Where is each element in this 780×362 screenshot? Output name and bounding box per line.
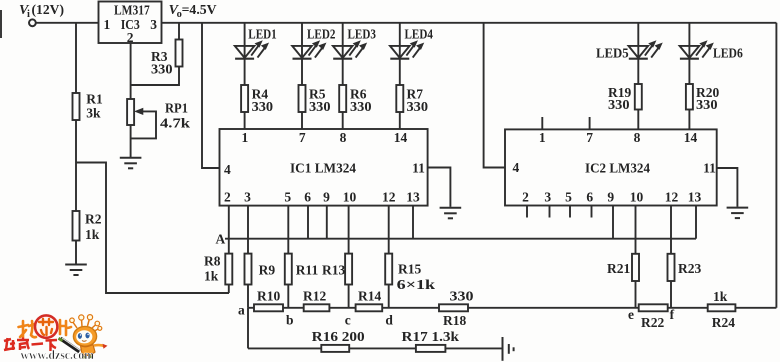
wire R15 bottom to node d bbox=[388, 285, 390, 308]
svg-text:14: 14 bbox=[394, 130, 408, 145]
ground under RP1 bbox=[120, 157, 142, 169]
watermark magnifier ring bbox=[35, 315, 57, 337]
resistor R14 bbox=[356, 304, 383, 311]
wire R1R2 junction to divider tap bbox=[76, 163, 229, 294]
svg-text:8: 8 bbox=[634, 130, 641, 145]
svg-text:LED2: LED2 bbox=[307, 27, 336, 42]
watermark xin char bbox=[39, 319, 53, 335]
svg-text:13: 13 bbox=[406, 190, 420, 205]
svg-text:330: 330 bbox=[608, 97, 630, 112]
wire R3 branch from rail bbox=[178, 23, 180, 40]
svg-text:10: 10 bbox=[343, 190, 357, 205]
svg-text:R12: R12 bbox=[303, 288, 326, 303]
svg-text:330: 330 bbox=[696, 97, 718, 112]
watermark mascot eyes bbox=[78, 333, 82, 339]
resistor R8 bbox=[225, 254, 232, 285]
wire IC2 stub pin1 bbox=[541, 117, 543, 129]
svg-text:c: c bbox=[345, 313, 351, 328]
watermark mascot head bbox=[73, 326, 96, 346]
wire IC1 pin2 to R8 bbox=[228, 206, 230, 254]
resistor R13 bbox=[345, 254, 352, 285]
LED4 bbox=[390, 41, 424, 59]
wire IC1 pin9 to A bbox=[326, 206, 328, 239]
wire IC2 stub pin5 bbox=[569, 206, 571, 218]
svg-text:3: 3 bbox=[244, 190, 251, 205]
resistor R24 bbox=[708, 304, 736, 311]
resistor R5 bbox=[299, 85, 306, 112]
svg-text:=4.5V: =4.5V bbox=[182, 2, 217, 17]
wire RP1 bottom to ground bbox=[130, 125, 132, 158]
svg-text:f: f bbox=[670, 307, 675, 322]
wire LED2 column bbox=[301, 23, 303, 129]
svg-text:330: 330 bbox=[151, 62, 173, 77]
wire R9 bottom to node a bbox=[247, 285, 249, 308]
wire IC1 pin13 to A bbox=[412, 206, 414, 239]
resistor R2 bbox=[73, 211, 80, 241]
svg-text:R18: R18 bbox=[443, 313, 466, 328]
svg-text:11: 11 bbox=[703, 160, 716, 175]
svg-text:4.7k: 4.7k bbox=[160, 116, 191, 131]
watermark mascot crown bbox=[73, 319, 100, 332]
resistor R17 bbox=[416, 345, 446, 352]
ground IC1 pin11 bbox=[440, 207, 462, 219]
wire node a down to wire2 bbox=[247, 308, 249, 349]
wire right vertical rail bbox=[775, 23, 777, 308]
wire bottom resistor chain bbox=[248, 307, 776, 309]
svg-text:RP1: RP1 bbox=[165, 101, 188, 116]
svg-text:R14: R14 bbox=[358, 288, 381, 303]
resistor R4 bbox=[241, 85, 248, 112]
svg-text:R11: R11 bbox=[296, 263, 319, 278]
svg-text:2: 2 bbox=[224, 190, 231, 205]
svg-text:3: 3 bbox=[544, 190, 551, 205]
svg-text:2: 2 bbox=[127, 30, 134, 45]
ground IC2 pin11 bbox=[727, 207, 749, 219]
svg-text:d: d bbox=[385, 313, 393, 328]
svg-text:R23: R23 bbox=[678, 261, 701, 276]
watermark mascot legs bbox=[84, 356, 92, 359]
svg-text:R22: R22 bbox=[641, 315, 664, 330]
wire node A rail bbox=[225, 238, 696, 240]
svg-text:LED3: LED3 bbox=[348, 27, 377, 42]
input terminal circle Vi bbox=[29, 19, 36, 26]
resistor R19 bbox=[635, 84, 642, 110]
svg-text:13: 13 bbox=[688, 190, 702, 205]
svg-text:R17 1.3k: R17 1.3k bbox=[402, 329, 460, 344]
resistor R18 bbox=[439, 304, 468, 311]
op-amp U IC1 LM324 box bbox=[220, 129, 428, 206]
svg-text:14: 14 bbox=[684, 130, 698, 145]
svg-text:LED6: LED6 bbox=[713, 46, 743, 61]
LED1 bbox=[235, 41, 269, 59]
wire R1 column bbox=[75, 23, 77, 211]
wire IC2 stub pin2 bbox=[526, 206, 528, 218]
svg-text:(12V): (12V) bbox=[32, 2, 65, 17]
svg-text:R16 200: R16 200 bbox=[312, 329, 365, 344]
wire LM317 pin2 column bbox=[130, 43, 132, 99]
wire R23 bottom to node f bbox=[670, 281, 672, 308]
wire IC2 stub pin3 bbox=[549, 206, 551, 218]
watermark mascot face bbox=[76, 330, 92, 343]
svg-text:12: 12 bbox=[665, 190, 679, 205]
resistor R20 bbox=[686, 84, 693, 110]
svg-text:5: 5 bbox=[565, 190, 572, 205]
wire LED6 column bbox=[688, 23, 690, 130]
potentiometer RP1 body bbox=[127, 99, 134, 125]
resistor R15 bbox=[385, 254, 392, 285]
svg-text:R9: R9 bbox=[259, 263, 276, 278]
svg-text:330: 330 bbox=[309, 99, 331, 114]
op-amp U IC2 LM324 box bbox=[505, 129, 717, 205]
svg-text:R1: R1 bbox=[86, 92, 103, 107]
svg-text:330: 330 bbox=[252, 99, 274, 114]
svg-text:R8: R8 bbox=[204, 254, 221, 269]
svg-text:LM317: LM317 bbox=[114, 3, 150, 18]
svg-text:5: 5 bbox=[284, 190, 291, 205]
svg-text:1: 1 bbox=[242, 130, 249, 145]
svg-text:1: 1 bbox=[539, 130, 546, 145]
wire top rail Vo bbox=[162, 22, 777, 24]
LED2 bbox=[292, 41, 326, 59]
svg-text:8: 8 bbox=[340, 130, 347, 145]
wire IC1 pin12 to R15 bbox=[388, 206, 390, 254]
svg-text:www.dzsc.com: www.dzsc.com bbox=[21, 348, 95, 362]
svg-text:4: 4 bbox=[513, 160, 520, 175]
resistor R22 bbox=[639, 304, 668, 311]
svg-text:6: 6 bbox=[304, 190, 311, 205]
resistor R10 bbox=[254, 304, 283, 311]
potentiometer RP1 wiper arrow bbox=[135, 108, 143, 114]
svg-text:i: i bbox=[27, 9, 30, 20]
svg-text:1k: 1k bbox=[204, 269, 219, 284]
resistor R23 bbox=[668, 254, 675, 281]
wire IC2 pin10 to R21 bbox=[635, 206, 637, 254]
svg-text:R2: R2 bbox=[85, 212, 102, 227]
svg-text:10: 10 bbox=[630, 190, 644, 205]
resistor R1 bbox=[73, 93, 80, 120]
wire IC2 pin11 to ground bbox=[717, 168, 738, 207]
wire input to LM317 pin1 bbox=[36, 22, 99, 24]
ground sideways at end of R17 wire bbox=[503, 337, 514, 361]
svg-text:LED1: LED1 bbox=[248, 27, 277, 42]
resistor R3 bbox=[176, 40, 183, 67]
resistor R6 bbox=[339, 85, 346, 112]
wire R13 bottom to node c bbox=[348, 285, 350, 308]
svg-text:b: b bbox=[286, 313, 294, 328]
svg-text:R10: R10 bbox=[257, 288, 280, 303]
svg-text:12: 12 bbox=[382, 190, 396, 205]
svg-text:3: 3 bbox=[150, 17, 157, 32]
wire RP1 wiper return bbox=[131, 111, 156, 138]
wire IC2 stub pin6 bbox=[591, 206, 593, 218]
svg-text:6: 6 bbox=[586, 190, 593, 205]
svg-text:6×1k: 6×1k bbox=[397, 277, 436, 292]
svg-text:7: 7 bbox=[299, 130, 306, 145]
svg-text:A: A bbox=[216, 232, 226, 247]
ground under R2 bbox=[65, 264, 87, 276]
wire R2 to ground bbox=[75, 241, 77, 265]
wire R21 bottom to node e bbox=[635, 281, 637, 308]
svg-text:330: 330 bbox=[407, 99, 429, 114]
wire IC2 pin13 to A bbox=[695, 206, 697, 239]
watermark zhao char orange bbox=[19, 321, 37, 337]
wire IC2 pin9 to A bbox=[612, 206, 614, 239]
wire IC1 pin11 to ground bbox=[428, 168, 451, 207]
LED5 bbox=[629, 41, 663, 59]
watermark mascot arm bbox=[94, 344, 104, 347]
watermark mascot pen bbox=[61, 339, 80, 352]
watermark pian char orange bbox=[60, 320, 71, 335]
svg-text:LED5: LED5 bbox=[596, 46, 629, 61]
svg-text:330: 330 bbox=[450, 288, 474, 303]
wire LED5 column bbox=[637, 23, 639, 130]
resistor R11 bbox=[285, 254, 292, 285]
watermark weiku chars red bbox=[4, 338, 57, 352]
svg-text:9: 9 bbox=[607, 190, 614, 205]
svg-text:a: a bbox=[238, 303, 245, 318]
wire2 R16 R17 branch bbox=[248, 347, 503, 349]
svg-text:e: e bbox=[628, 307, 634, 322]
resistor R9 bbox=[245, 254, 252, 285]
wire LED1 column bbox=[244, 23, 246, 129]
svg-text:IC2 LM324: IC2 LM324 bbox=[585, 160, 650, 175]
svg-text:4: 4 bbox=[224, 162, 231, 177]
wire LED3 column bbox=[342, 23, 344, 129]
svg-text:9: 9 bbox=[323, 190, 330, 205]
svg-text:330: 330 bbox=[350, 99, 372, 114]
wire IC1 pin6 to A bbox=[307, 206, 309, 239]
wire LED4 column bbox=[399, 23, 401, 129]
wire R3 bottom to pin2 column bbox=[131, 67, 179, 86]
wire rail to IC1 pin4 bbox=[202, 23, 220, 168]
svg-text:7: 7 bbox=[586, 130, 593, 145]
svg-text:R13: R13 bbox=[322, 263, 345, 278]
resistor R7 bbox=[396, 85, 403, 112]
svg-text:R15: R15 bbox=[398, 262, 421, 277]
wire R8 bottom bbox=[228, 285, 230, 294]
wire IC1 pin5 to R11 bbox=[287, 206, 289, 254]
svg-text:3k: 3k bbox=[86, 106, 101, 121]
wire IC1 pin10 to R13 bbox=[348, 206, 350, 254]
svg-text:2: 2 bbox=[522, 190, 529, 205]
svg-text:R24: R24 bbox=[712, 315, 735, 330]
svg-text:1k: 1k bbox=[85, 227, 100, 242]
wire IC2 stub pin7 bbox=[589, 117, 591, 129]
svg-text:IC1 LM324: IC1 LM324 bbox=[290, 160, 356, 175]
svg-text:LED4: LED4 bbox=[405, 27, 434, 42]
svg-text:1: 1 bbox=[104, 17, 111, 32]
scan artifact left edge bbox=[0, 10, 2, 38]
wire IC1 pin3 to R9 bbox=[247, 206, 249, 254]
wire rail to IC2 pin4 bbox=[484, 23, 505, 168]
svg-text:1k: 1k bbox=[713, 289, 728, 304]
wire R11 bottom to node b bbox=[287, 285, 289, 308]
LED3 bbox=[333, 41, 367, 59]
svg-text:R21: R21 bbox=[607, 261, 630, 276]
LED6 bbox=[680, 41, 714, 59]
resistor R16 bbox=[321, 345, 349, 352]
resistor R21 bbox=[632, 254, 639, 281]
wire IC2 pin12 to R23 bbox=[670, 206, 672, 254]
svg-text:11: 11 bbox=[412, 160, 425, 175]
regulator U IC3 LM317 box bbox=[99, 2, 162, 44]
resistor R12 bbox=[304, 304, 330, 311]
watermark mascot body bbox=[81, 345, 96, 356]
